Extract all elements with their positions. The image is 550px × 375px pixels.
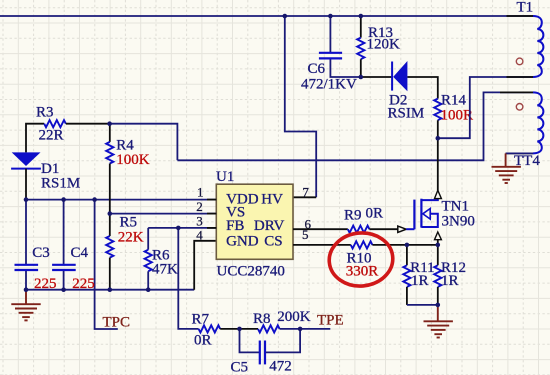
junction CS/R11 node — [405, 243, 410, 248]
svg-text:RSIM: RSIM — [388, 106, 425, 122]
svg-text:3: 3 — [196, 213, 203, 228]
junction R7/R8/C5 left node — [237, 327, 242, 332]
annotation red circle around R10 — [327, 230, 395, 288]
polarity dot winding 1 — [516, 58, 523, 65]
svg-text:100R: 100R — [441, 108, 474, 124]
svg-text:TPC: TPC — [103, 315, 131, 331]
wire: D2 cathode to R14 — [407, 77, 437, 99]
wire: R8 right to TPE stub — [280, 328, 331, 330]
svg-text:0R: 0R — [194, 333, 212, 349]
junction ground rail / R6 — [146, 287, 151, 292]
svg-text:100K: 100K — [116, 152, 150, 168]
wire: snubber return to winding 1 bottom — [438, 77, 533, 138]
wire: winding 2 bottom to ground — [506, 152, 533, 154]
pin 3 stub — [207, 227, 216, 229]
svg-text:T1: T1 — [517, 0, 534, 16]
ground (MOSFET source) — [424, 305, 453, 338]
wire: GND pin 4 to ground rail — [194, 241, 216, 290]
capacitor C3 — [15, 200, 39, 290]
svg-text:TN1: TN1 — [442, 199, 470, 215]
ground (C3/C4) — [11, 290, 40, 321]
resistor R11 — [403, 245, 410, 305]
svg-text:TT4: TT4 — [514, 153, 540, 169]
svg-text:22K: 22K — [118, 230, 144, 246]
resistor R13 — [357, 16, 364, 77]
junction VDD rail / TPC — [92, 197, 97, 202]
junction VS node — [108, 211, 113, 216]
resistor R8 — [258, 325, 280, 332]
wire: R7 to R8 node — [220, 328, 258, 330]
junction ground rail / C3 — [24, 287, 29, 292]
svg-text:TPE: TPE — [317, 313, 344, 329]
junction FB node — [176, 226, 181, 231]
svg-text:C4: C4 — [71, 245, 89, 261]
svg-text:D1: D1 — [41, 161, 59, 177]
svg-text:22R: 22R — [39, 128, 64, 144]
wire: R10 to source node — [372, 244, 437, 246]
svg-text:C6: C6 — [308, 61, 326, 77]
wire: DRV pin 6 to R9 — [293, 228, 348, 230]
svg-text:200K: 200K — [277, 309, 311, 325]
resistor R4 — [106, 124, 113, 214]
wire: vertical from top rail to pin7 jog — [285, 16, 316, 197]
diode D1 — [11, 152, 41, 199]
wire: CS pin 5 to R10 — [293, 244, 351, 246]
svg-text:FB: FB — [226, 218, 244, 234]
resistor R5 — [106, 214, 113, 290]
junction VDD rail / D1 — [24, 197, 29, 202]
resistor R12 — [434, 245, 441, 305]
gate direction arrow — [398, 226, 406, 232]
IC U1 UCC28740 — [216, 184, 293, 259]
pin 1 stub — [207, 199, 216, 201]
junction R8/C5 right node — [298, 327, 303, 332]
wire: drain lead from R14 node — [437, 138, 439, 190]
svg-text:R5: R5 — [120, 215, 138, 231]
wire: FB drop to R7 — [178, 228, 198, 329]
T1 pin stub winding2 bottom — [506, 152, 534, 154]
junction C6/R13/D2 node — [359, 75, 364, 80]
svg-text:R7: R7 — [192, 311, 210, 327]
wire: R11/R12 bottom rail — [407, 304, 438, 306]
wire: R3 left corner down through D1 — [26, 124, 44, 153]
resistor R3 — [44, 120, 66, 127]
svg-text:GND: GND — [226, 233, 259, 249]
capacitor C6 — [319, 16, 361, 77]
source open arrow — [435, 232, 442, 240]
svg-text:CS: CS — [264, 233, 282, 249]
svg-text:U1: U1 — [216, 169, 234, 185]
resistor R14 — [434, 99, 441, 139]
T1 pin stub top — [507, 15, 534, 17]
junction R3/R4 node — [107, 121, 112, 126]
transformer T1 winding 2 — [533, 92, 543, 153]
wire: R3 right stub — [66, 123, 110, 125]
MOSFET TN1 — [414, 199, 437, 230]
junction top rail / R13 — [359, 14, 364, 19]
svg-text:UCC28740: UCC28740 — [217, 264, 285, 280]
wire: R9 to gate arrow — [369, 228, 397, 230]
T1 pin stub winding2 top — [500, 91, 534, 93]
junction R14 bottom node — [436, 136, 441, 141]
junction ground rail / C4 — [61, 287, 66, 292]
pin 2 stub — [207, 213, 216, 215]
svg-text:R3: R3 — [36, 105, 54, 121]
junction top rail / C6 — [328, 14, 333, 19]
svg-text:7: 7 — [302, 185, 309, 200]
wire: top HV rail — [0, 15, 533, 17]
svg-text:RS1M: RS1M — [41, 176, 80, 192]
svg-text:DRV: DRV — [254, 218, 285, 234]
transformer T1 winding 1 — [533, 16, 543, 77]
svg-text:1R: 1R — [441, 273, 459, 289]
svg-text:120K: 120K — [367, 37, 401, 53]
svg-text:472: 472 — [269, 359, 292, 375]
wire: source lead to CS node — [437, 240, 439, 245]
resistor R10 — [351, 241, 373, 248]
capacitor C5 — [240, 329, 301, 365]
junction R12 bottom / ground — [436, 303, 441, 308]
resistor R9 — [348, 226, 370, 233]
wire: VS wire to pin 2 — [110, 213, 217, 215]
wire: pin7 stub — [293, 196, 316, 198]
T1 pin stub winding1 bottom — [507, 76, 534, 78]
resistor R7 — [199, 325, 221, 332]
svg-text:C5: C5 — [231, 360, 249, 375]
junction source/R12 node — [436, 243, 441, 248]
svg-text:R8: R8 — [253, 311, 271, 327]
svg-text:3N90: 3N90 — [442, 214, 475, 230]
svg-text:4: 4 — [196, 227, 203, 242]
junction VDD rail / C4 — [61, 197, 66, 202]
svg-text:C3: C3 — [32, 245, 50, 261]
svg-text:2: 2 — [196, 199, 203, 214]
wire: TPC drop — [95, 200, 118, 329]
svg-text:0R: 0R — [366, 206, 384, 222]
svg-text:472/1KV: 472/1KV — [301, 77, 357, 93]
capacitor C4 — [52, 200, 76, 290]
diode D2 — [392, 61, 407, 91]
wire: winding 2 top to VS sense — [177, 92, 533, 160]
svg-text:1R: 1R — [411, 273, 429, 289]
svg-text:47K: 47K — [152, 262, 178, 278]
svg-text:HV: HV — [261, 192, 283, 208]
svg-text:R9: R9 — [344, 207, 362, 223]
wire: FB wire pin 3 — [148, 227, 216, 229]
wire: ground rail — [26, 289, 194, 291]
junction ground rail / R5 — [108, 287, 113, 292]
wire: VDD rail — [26, 199, 216, 201]
resistor R6 — [145, 228, 152, 290]
wire: R3 node to VS sense wire — [110, 124, 178, 161]
junction top rail / pin7 branch — [283, 14, 288, 19]
ground TT4 — [492, 153, 521, 183]
polarity dot winding 2 — [516, 104, 523, 111]
wire: arrow to gate — [406, 228, 414, 230]
svg-text:1: 1 — [197, 184, 204, 199]
svg-text:330R: 330R — [346, 264, 379, 280]
drain open arrow — [435, 190, 442, 198]
wire: D2 anode segment — [361, 76, 392, 78]
svg-text:R14: R14 — [441, 93, 467, 109]
